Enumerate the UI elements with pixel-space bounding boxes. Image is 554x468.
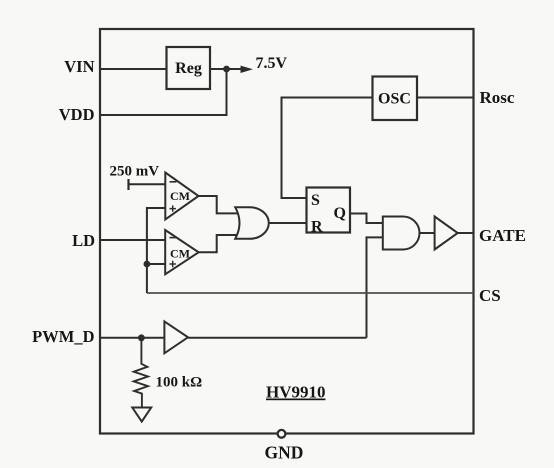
gate driver buffer [435,217,458,250]
svg-text:CS: CS [479,286,501,305]
wire OR output to R input [269,222,307,224]
wire Reg output to 7.5V arrow [210,68,248,70]
svg-text:HV9910: HV9910 [266,383,326,402]
wire OSC to S input [282,98,373,199]
wire VDD riser [100,69,227,115]
svg-text:LD: LD [72,231,95,250]
svg-text:250 mV: 250 mV [110,164,160,180]
svg-text:OSC: OSC [378,91,411,108]
wire Q output to AND gate [350,214,383,224]
svg-text:PWM_D: PWM_D [32,327,94,346]
node junction dot CS branch [144,261,151,268]
wire VIN to Reg [100,68,167,70]
node junction dot PWM_D [138,334,145,341]
wire PWM buffer to AND gate lower input [367,237,383,337]
wire PWM_D to buffer [100,337,164,339]
SR latch U1 [307,188,351,233]
wire AND to driver [420,232,435,234]
wire OSC to Rosc pin [417,97,474,99]
svg-text:S: S [311,192,320,209]
CM2 plus mark [170,261,176,267]
svg-text:CM: CM [170,247,190,261]
node junction dot at Reg output [223,66,230,73]
svg-text:Reg: Reg [175,60,202,77]
regulator Reg [167,47,211,89]
svg-text:CM: CM [170,189,190,203]
wire CS line [147,292,474,294]
GND terminal [278,430,286,438]
wire LD to CM2 minus [100,239,165,241]
OR gate [235,207,269,239]
CM1 minus mark [170,181,177,183]
CM2 minus mark [170,237,177,239]
wire CS branch to CM1 plus [147,208,165,293]
ground symbol [132,408,151,422]
svg-text:Rosc: Rosc [480,88,515,107]
resistor R1 100k [134,338,148,408]
reference terminal bar [127,179,129,190]
wire driver to GATE pin [458,232,474,234]
comparator CM1 [165,173,198,220]
arrow head 7.5V [241,66,254,73]
oscillator OSC [373,77,418,121]
svg-text:100 kΩ: 100 kΩ [156,375,203,391]
comparator CM2 [165,230,198,274]
wire CM1 output to OR gate [199,196,238,213]
svg-text:R: R [311,219,323,236]
svg-text:Q: Q [334,205,346,222]
wire CM2 output to OR gate [199,235,237,252]
wire CS branch to CM2 plus [147,263,165,265]
svg-text:GND: GND [265,443,304,463]
wire buffer output [188,337,367,339]
IC boundary box [100,29,474,434]
PWM buffer [164,321,188,353]
svg-text:VIN: VIN [64,57,94,76]
wire 250mV to CM1 minus input [129,183,166,185]
CM1 plus mark [170,205,176,211]
AND gate [383,217,420,250]
svg-text:VDD: VDD [59,105,95,124]
svg-text:7.5V: 7.5V [256,55,288,72]
svg-text:GATE: GATE [479,226,526,245]
